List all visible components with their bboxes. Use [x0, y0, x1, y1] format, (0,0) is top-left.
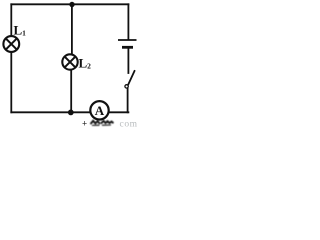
svg-text:+: + — [82, 119, 87, 129]
svg-text:com: com — [120, 120, 138, 130]
svg-text:A: A — [95, 103, 105, 118]
